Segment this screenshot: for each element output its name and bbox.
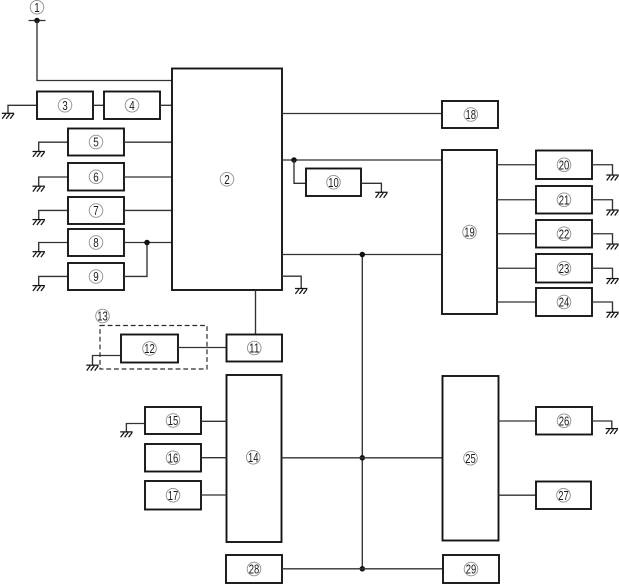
wire 8 to 2 xyxy=(124,242,172,244)
wire 19 to 21 xyxy=(497,199,536,201)
block 6 xyxy=(68,163,124,191)
svg-text:5: 5 xyxy=(93,135,99,150)
svg-text:28: 28 xyxy=(249,562,260,577)
block 18 xyxy=(442,101,498,128)
junction wires 8/9 xyxy=(144,240,150,246)
block 14 xyxy=(227,375,282,542)
block 25 xyxy=(443,376,499,541)
wire 12 to 11 xyxy=(178,347,227,349)
wire ground stub of 10 xyxy=(361,183,381,192)
block 8 xyxy=(68,229,124,256)
wire 2 to 18 xyxy=(282,113,442,115)
svg-text:24: 24 xyxy=(559,295,570,310)
wire 15 to 14 xyxy=(201,420,227,422)
wire ground stub of 20 xyxy=(592,165,613,175)
block 20 xyxy=(536,151,592,180)
svg-text:3: 3 xyxy=(62,98,68,113)
wire ground stub of 9 xyxy=(39,276,68,285)
ground of block 3 xyxy=(2,113,14,118)
wire ground stub of 7 xyxy=(39,210,68,219)
ground of block 23 xyxy=(606,279,618,284)
wire 2 to 19 upper xyxy=(282,159,442,161)
block 16 xyxy=(145,444,201,472)
wire 25 to 26 xyxy=(499,420,537,422)
svg-text:1: 1 xyxy=(34,0,40,15)
block 26 xyxy=(536,407,592,435)
block 7 xyxy=(68,197,124,224)
wire ground stub of 24 xyxy=(592,302,613,312)
wire 17 to 14 xyxy=(201,494,227,496)
wire ground stub of 6 xyxy=(39,177,68,186)
block 19 xyxy=(442,150,497,314)
block 24 xyxy=(536,288,592,316)
wire 3 to 4 xyxy=(93,104,104,106)
ground of block 20 xyxy=(606,175,618,180)
wire ground stub of 26 xyxy=(592,421,612,429)
block 10 xyxy=(306,169,361,197)
svg-text:4: 4 xyxy=(129,98,135,113)
wire 19 to 22 xyxy=(497,233,536,235)
block 28 xyxy=(226,555,282,583)
ground of block 8 xyxy=(33,252,45,257)
svg-text:10: 10 xyxy=(328,175,339,190)
ground of block 26 xyxy=(606,429,618,434)
svg-text:25: 25 xyxy=(465,451,476,466)
block 5 xyxy=(68,129,124,156)
junction bus middle xyxy=(360,455,366,461)
svg-text:22: 22 xyxy=(559,226,570,241)
junction bus top xyxy=(360,252,366,258)
wire 19 to 20 xyxy=(497,164,536,166)
block 15 xyxy=(145,407,201,434)
svg-text:12: 12 xyxy=(144,341,155,356)
wire ground stub of 3 xyxy=(8,105,37,113)
ground of block 7 xyxy=(33,220,45,225)
svg-text:9: 9 xyxy=(93,269,99,284)
wire 4 to 2 xyxy=(160,104,172,106)
wire 6 to 2 xyxy=(124,176,172,178)
block 22 xyxy=(536,220,592,248)
wire 19 to 23 xyxy=(497,267,536,269)
svg-text:11: 11 xyxy=(249,341,260,356)
svg-text:19: 19 xyxy=(464,225,475,240)
wire 16 to 14 xyxy=(201,457,227,459)
block 11 xyxy=(227,335,283,362)
ground of block 2 xyxy=(295,289,307,294)
svg-text:23: 23 xyxy=(559,261,570,276)
wire ground stub of 5 xyxy=(39,142,68,151)
block 17 xyxy=(145,481,201,510)
svg-text:6: 6 xyxy=(93,169,99,184)
svg-text:8: 8 xyxy=(93,235,99,250)
svg-text:27: 27 xyxy=(558,488,569,503)
svg-text:7: 7 xyxy=(93,203,99,218)
svg-text:15: 15 xyxy=(168,413,179,428)
wire ground stub of 12 xyxy=(93,356,122,366)
svg-text:26: 26 xyxy=(559,413,570,428)
wire 19 to 24 xyxy=(497,301,536,303)
ground of block 15 xyxy=(120,432,132,437)
node label 1 xyxy=(30,0,44,15)
block 27 xyxy=(536,482,591,510)
ground of block 22 xyxy=(606,244,618,249)
wire 9 up to node of 8 xyxy=(124,243,147,277)
wire 28 to 29 xyxy=(282,568,443,570)
wire ground stub of 8 xyxy=(39,243,68,252)
node label 13 xyxy=(96,309,110,324)
junction pin1 xyxy=(34,18,40,24)
ground of block 24 xyxy=(606,312,618,317)
svg-text:2: 2 xyxy=(224,172,230,187)
svg-text:13: 13 xyxy=(97,309,108,324)
ground of block 21 xyxy=(606,210,618,215)
block 23 xyxy=(536,254,592,283)
wire ground stub of 21 xyxy=(592,200,613,210)
wire branch down to 10 xyxy=(294,160,306,183)
wire ground stub of 23 xyxy=(592,268,613,278)
junction bus bottom xyxy=(360,566,366,572)
node pin 1 tick xyxy=(29,20,46,22)
svg-text:17: 17 xyxy=(168,488,179,503)
block 2 xyxy=(172,69,282,291)
wire ground stub of 22 xyxy=(592,234,613,244)
wire ground stub of 15 xyxy=(126,424,145,432)
ground of block 5 xyxy=(33,152,45,157)
wire 2 to 19 lower xyxy=(282,254,442,256)
ground of block 9 xyxy=(33,286,45,291)
svg-text:21: 21 xyxy=(559,192,570,207)
junction branch to 10 xyxy=(291,157,297,163)
wire 7 to 2 xyxy=(124,209,172,211)
ground of block 10 xyxy=(375,192,387,197)
ground of block 6 xyxy=(33,186,45,191)
wire 2 down to 11 xyxy=(255,290,257,335)
wire bus vertical xyxy=(361,255,363,569)
wire ground stub of 2 xyxy=(282,276,301,288)
svg-text:18: 18 xyxy=(466,107,477,122)
block 9 xyxy=(68,263,124,290)
wire 25 to 27 xyxy=(499,494,537,496)
wire 5 to 2 xyxy=(124,141,172,143)
svg-text:16: 16 xyxy=(168,450,179,465)
dashed box 13 xyxy=(100,326,207,370)
block 12 xyxy=(121,335,178,363)
ground of block 12 xyxy=(86,365,98,370)
block 3 xyxy=(37,92,93,120)
block 21 xyxy=(536,186,592,214)
svg-text:20: 20 xyxy=(559,157,570,172)
svg-text:29: 29 xyxy=(466,562,477,577)
block 4 xyxy=(104,92,160,120)
block 29 xyxy=(443,555,499,583)
wire 14 to 25 xyxy=(282,457,443,459)
svg-text:14: 14 xyxy=(248,450,259,465)
wire 1 to block 2 xyxy=(37,21,172,81)
